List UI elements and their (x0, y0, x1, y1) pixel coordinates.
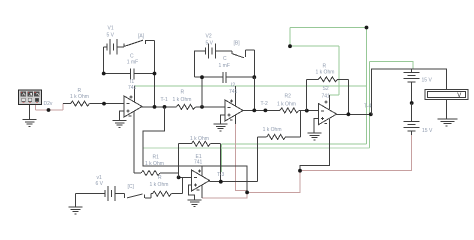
svg-text:[B]: [B] (234, 41, 241, 47)
wire tan vertical x=300 down (247, 171, 300, 193)
svg-text:V1: V1 (108, 26, 114, 32)
wire tan U2 bottom power stub long vertical (235, 124, 247, 192)
wire U2 + input to ground (221, 115, 226, 124)
resistor R2 1 kOhm (T-2 to S2) (280, 108, 307, 113)
svg-text:741: 741 (194, 160, 203, 166)
svg-text:C: C (223, 56, 227, 62)
svg-text:D2v: D2v (44, 101, 53, 107)
op-amp S2 741 (319, 104, 337, 125)
battery +15V (404, 69, 420, 103)
wire FG common stem (29, 105, 31, 119)
node T-1 (163, 105, 167, 109)
svg-text:T-3: T-3 (217, 172, 224, 178)
battery V2 (195, 43, 232, 58)
wire green vertical x=290 (289, 28, 291, 47)
resistor R1 1 kOhm (134, 171, 179, 176)
svg-text:R: R (158, 175, 162, 181)
ground FG (23, 120, 37, 127)
ground U1 (113, 121, 127, 128)
node U1 out (153, 105, 157, 109)
wire voltmeter to ground (446, 99, 448, 119)
battery -15V (404, 103, 420, 135)
wire switch A right down (154, 40, 156, 107)
resistor R 1 kOhm (input of U1) (63, 101, 104, 106)
resistor R 1 kOhm (into E1) (151, 191, 183, 198)
wire grey-green long horizontal y=148.2 (143, 147, 369, 149)
node S2 out (347, 112, 351, 116)
svg-text:1 k Ohm: 1 k Ohm (173, 97, 192, 103)
svg-text:V2: V2 (206, 34, 212, 40)
wire cap bus right vertical to U2 output (253, 77, 255, 110)
function generator XFG (19, 90, 42, 105)
resistor R 1 kOhm (S2 feedback) (306, 77, 348, 115)
wire U2 output to T-2 (243, 109, 280, 111)
wire green riser x=366.5 (366, 28, 368, 144)
node V2 bus left (200, 75, 204, 79)
wire E1 + input to ground (189, 185, 195, 199)
wire S2 + input to ground (314, 119, 319, 133)
wire green vertical at x=221.7 to T-3 (221, 144, 223, 172)
wire tan from function generator output (36, 104, 64, 110)
svg-text:R2: R2 (285, 94, 292, 100)
wire into S2 (307, 110, 319, 112)
resistor 1 kOhm (T-3 summing into S2) (257, 134, 300, 139)
wire E1 input (179, 176, 192, 178)
ground S2 (308, 133, 322, 140)
svg-text:15 V: 15 V (422, 128, 433, 134)
node right cap junction (153, 72, 157, 76)
battery v1 (6V) (76, 186, 125, 201)
switch B (232, 50, 255, 58)
wire tan jog at dot B down to y=197.8 and left to E1 (202, 192, 247, 197)
svg-text:T-1: T-1 (161, 97, 168, 103)
wire tan VEE/common: battery mid column down and left rail y=170.7 (300, 135, 412, 171)
svg-text:[A]: [A] (138, 34, 145, 40)
svg-text:741: 741 (229, 89, 238, 95)
wire green top horizontal y=26.5 (290, 27, 367, 29)
ground U2 (214, 124, 228, 131)
wire input bus to U1 (104, 103, 124, 105)
svg-text:[C]: [C] (128, 184, 135, 190)
capacitor C 1 mF (U1 feedback) (104, 68, 155, 79)
svg-text:1 k Ohm: 1 k Ohm (145, 161, 164, 167)
node T-4 (369, 112, 373, 116)
svg-text:1 k Ohm: 1 k Ohm (70, 94, 89, 100)
wire V2 left lead down (194, 51, 196, 78)
node T-3 (219, 180, 223, 184)
voltmeter V (425, 89, 468, 99)
op-amp U1 741 (124, 96, 142, 117)
switch C (125, 193, 151, 198)
node tan mid (298, 169, 302, 173)
wire cap bus left vertical to U2 input (201, 77, 203, 107)
node T-2 (264, 109, 268, 113)
svg-text:15 V: 15 V (422, 78, 433, 84)
svg-text:6 V: 6 V (96, 181, 104, 187)
wire U1 + input to ground (120, 111, 125, 120)
wire riser from R to E1 input (182, 177, 184, 193)
svg-text:741: 741 (322, 94, 331, 100)
node green top riser (365, 26, 369, 30)
capacitor C 1 mF (U2 feedback) (195, 72, 255, 83)
node U1 input (102, 102, 106, 106)
wire v1 left lead to ground (75, 193, 77, 206)
wire E1 output T-3 (210, 181, 258, 183)
resistor 1 kOhm (E1 feedback top) (179, 141, 221, 182)
wire green S2 vcc stub horizontal y=95 (330, 94, 339, 96)
svg-text:5 V: 5 V (107, 33, 115, 39)
svg-text:5 V: 5 V (206, 41, 214, 47)
wire T-4 riser up and across to voltmeter (372, 69, 447, 114)
svg-text:1 mF: 1 mF (219, 63, 230, 69)
wire VCC+ green rail from U1 to riser (135, 85, 367, 87)
node green mid (288, 44, 292, 48)
node left cap junction (102, 72, 106, 76)
wire green riser2 x=369.3 (368, 62, 370, 149)
switch A (124, 40, 155, 47)
ground E1 (188, 200, 202, 207)
node U2 input (200, 105, 204, 109)
wire green vertical x=339 (338, 46, 340, 95)
node battery midpoint (410, 101, 414, 105)
svg-text:741: 741 (128, 85, 137, 91)
wire V1 left lead down to bus (103, 47, 105, 74)
node S2 input (305, 109, 309, 113)
svg-text:1 k Ohm: 1 k Ohm (316, 70, 335, 76)
ground voltmeter (438, 119, 458, 126)
svg-text:1 k Ohm: 1 k Ohm (263, 127, 282, 133)
wire T-1 feedback route down-left-down-right-down to dot B (143, 107, 247, 192)
svg-text:1 k Ohm: 1 k Ohm (277, 101, 296, 107)
wire U1 output to T-1 (142, 106, 176, 108)
wire green horizontal y=46.2 (290, 45, 339, 47)
wire S2 output T-4 (337, 113, 371, 115)
svg-text:V: V (457, 93, 461, 99)
wire summing resistor right up to S2 input (299, 111, 301, 137)
svg-text:1 k Ohm: 1 k Ohm (150, 182, 169, 188)
svg-text:1 k Ohm: 1 k Ohm (190, 136, 209, 142)
svg-text:R1: R1 (153, 155, 160, 161)
node V2 bus right (252, 75, 256, 79)
ground v1 (69, 207, 83, 214)
node B junction (245, 191, 249, 195)
svg-text:S2: S2 (323, 86, 329, 92)
battery V1 (104, 39, 124, 55)
node U2 out (252, 109, 256, 113)
op-amp E1 741 (192, 170, 210, 191)
node E1 input (177, 176, 181, 180)
svg-text:I2: I2 (231, 83, 235, 89)
wire green long feedback y=143.8 (222, 143, 367, 145)
node D2v junction dot (47, 108, 51, 112)
resistor R 1 kOhm (T-1 to U2) (176, 104, 225, 109)
svg-text:T-4: T-4 (364, 104, 371, 110)
wire T-3 riser x=257.4 (256, 137, 258, 182)
wire switch B right down (254, 50, 256, 77)
op-amp U2 741 (225, 100, 243, 121)
svg-text:R: R (181, 90, 185, 96)
svg-text:T-2: T-2 (261, 101, 268, 107)
wire green to +15V battery y=61.5 (369, 62, 413, 70)
svg-text:1 mF: 1 mF (127, 60, 138, 66)
